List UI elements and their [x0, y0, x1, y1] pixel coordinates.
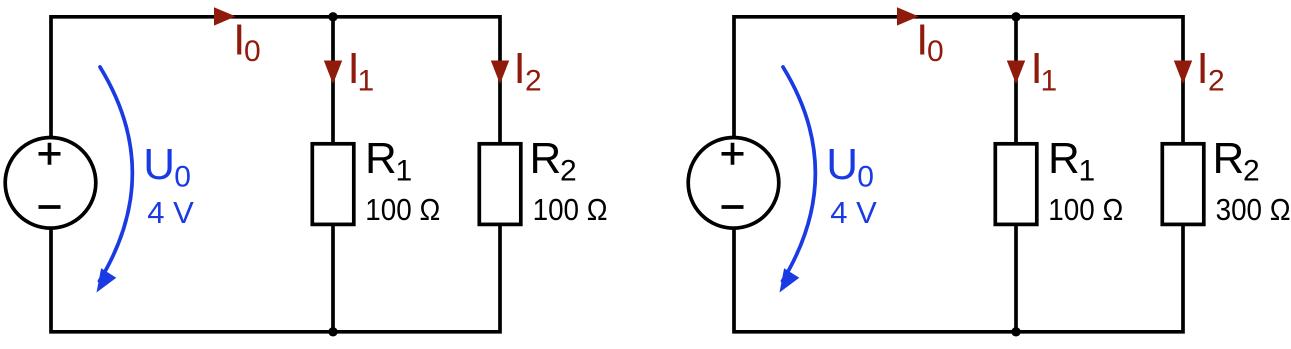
svg-text:R: R [1048, 134, 1080, 183]
label I2 (left circuit) [514, 44, 542, 98]
wire: right circuit middle branch [1014, 17, 1018, 332]
label I0 (right circuit) [916, 15, 944, 68]
node: bottom junction (left circuit) [328, 327, 337, 336]
svg-text:R: R [1213, 134, 1245, 183]
svg-text:0: 0 [244, 35, 261, 68]
wire: left circuit middle branch [331, 17, 335, 332]
svg-text:I: I [514, 44, 526, 93]
wire: left circuit outer loop [51, 17, 500, 332]
label I1 (right circuit) [1031, 44, 1058, 98]
svg-text:300 Ω: 300 Ω [1216, 192, 1291, 227]
svg-text:1: 1 [358, 65, 375, 98]
value 300 ohm (R2 right circuit) [1216, 192, 1291, 227]
label U0 (right circuit) [826, 140, 874, 194]
svg-text:1: 1 [1079, 155, 1096, 188]
current arrow I1 (left circuit) [324, 61, 342, 85]
svg-text:1: 1 [396, 155, 413, 188]
wire: right circuit outer loop [734, 17, 1183, 332]
voltage arrow U0 (blue arc, left circuit) [97, 67, 133, 293]
svg-text:100 Ω: 100 Ω [1048, 192, 1123, 227]
value 100 ohm (R1 left circuit) [365, 192, 440, 227]
svg-text:U: U [143, 140, 175, 189]
svg-text:2: 2 [525, 65, 542, 98]
voltage arrow U0 (blue arc, right circuit) [780, 67, 816, 293]
value 4 V (left circuit) [147, 195, 194, 230]
svg-text:2: 2 [1243, 155, 1260, 188]
node: bottom junction (right circuit) [1011, 327, 1020, 336]
label U0 (left circuit) [143, 140, 191, 194]
svg-text:2: 2 [560, 155, 577, 188]
svg-text:I: I [1197, 44, 1209, 93]
voltage source U0 (right circuit) [688, 138, 779, 229]
label I2 (right circuit) [1197, 44, 1225, 98]
svg-text:0: 0 [927, 35, 944, 68]
node: top junction (right circuit) [1011, 12, 1020, 21]
svg-text:0: 0 [857, 160, 874, 193]
svg-text:1: 1 [1041, 65, 1058, 98]
svg-text:100 Ω: 100 Ω [365, 192, 440, 227]
label R1 (right circuit) [1048, 134, 1095, 188]
resistor R2 (left circuit) [479, 144, 521, 225]
label R1 (left circuit) [365, 134, 412, 188]
current arrow I2 (right circuit) [1174, 61, 1192, 85]
label I0 (left circuit) [233, 15, 261, 68]
svg-text:4 V: 4 V [147, 195, 194, 230]
svg-text:R: R [530, 134, 562, 183]
svg-text:100 Ω: 100 Ω [533, 192, 608, 227]
label I1 (left circuit) [348, 44, 375, 98]
resistor R1 (right circuit) [995, 144, 1037, 225]
current arrow I1 (right circuit) [1007, 61, 1025, 85]
voltage source U0 (left circuit) [5, 138, 96, 229]
node: top junction (left circuit) [328, 12, 337, 21]
current arrow I0 (left circuit) [214, 7, 236, 25]
value 4 V (right circuit) [830, 195, 877, 230]
resistor R1 (left circuit) [312, 144, 354, 225]
svg-text:2: 2 [1208, 65, 1225, 98]
label R2 (right circuit) [1213, 134, 1260, 188]
current arrow I2 (left circuit) [491, 61, 509, 85]
label R2 (left circuit) [530, 134, 577, 188]
value 100 ohm (R1 right circuit) [1048, 192, 1123, 227]
current arrow I0 (right circuit) [897, 7, 919, 25]
svg-text:U: U [826, 140, 858, 189]
svg-text:R: R [365, 134, 397, 183]
svg-text:0: 0 [174, 160, 191, 193]
value 100 ohm (R2 left circuit) [533, 192, 608, 227]
resistor R2 (right circuit) [1162, 144, 1204, 225]
svg-text:4 V: 4 V [830, 195, 877, 230]
